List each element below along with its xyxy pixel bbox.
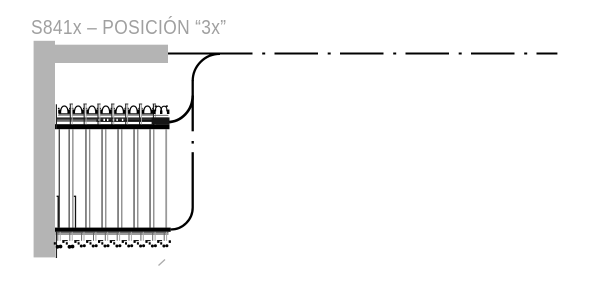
panel 2 body pair <box>86 129 90 227</box>
panel edge divider top 6 <box>139 104 142 125</box>
bottom guide bar 2 <box>74 240 79 242</box>
bottom guide bar 6 <box>122 240 127 242</box>
top hanger row line lower left <box>56 120 96 122</box>
panel edge divider top 2 <box>83 104 86 125</box>
panel edge divider top 3 <box>97 104 100 125</box>
bottom rail line 2 <box>56 233 169 235</box>
bottom guide swivel 8 <box>137 232 148 248</box>
panel edge divider top 1 <box>70 104 73 125</box>
panel edge divider top 5 <box>125 104 128 125</box>
roller carrier 3 <box>86 106 99 115</box>
panel 3 body pair <box>102 129 106 227</box>
bottom rail band <box>55 228 171 232</box>
bottom rail line 1 <box>56 232 169 234</box>
roller carrier 1 <box>58 106 71 115</box>
bottom guide swivel 5 <box>101 232 112 248</box>
track top line dash-dot <box>253 53 558 55</box>
panel 4 body pair <box>118 129 122 227</box>
roller carrier 2 <box>72 106 85 115</box>
wall vertical band <box>34 41 55 258</box>
bottom guide swivel 2 <box>66 232 77 249</box>
track vertical solid lower <box>192 152 194 207</box>
bottom guide swivel 9 <box>149 232 160 248</box>
roller carrier 7 <box>141 106 154 115</box>
hanger row white specks <box>98 119 124 121</box>
track vertical dot <box>192 141 194 144</box>
bottom guide swivel 6 <box>113 232 124 248</box>
floor channel left upright <box>57 196 59 227</box>
floor channel right upright <box>74 196 76 227</box>
bottom guide swivel 7 <box>125 232 136 248</box>
lead drive carrier (double roller) <box>152 105 170 124</box>
bottom guide bar 3 <box>86 240 91 242</box>
track curve to stack top band <box>168 96 193 123</box>
dimension tick <box>159 260 166 266</box>
track curve bottom <box>171 208 193 230</box>
top hanger row line lower right <box>96 120 168 122</box>
panel 6 body pair <box>150 129 154 227</box>
bottom guide swivel 4 <box>90 232 101 248</box>
left jamb profile top <box>55 104 57 129</box>
bottom guide bar 8 <box>145 240 150 242</box>
panel body right single <box>165 129 167 227</box>
bottom guide bar 4 <box>98 240 103 242</box>
top hanger rail band <box>55 124 170 129</box>
bottom guide bar 1 <box>62 240 67 242</box>
bottom guide swivel 10 <box>160 232 171 248</box>
panel 5 body pair <box>134 129 138 227</box>
roller carrier 5 <box>113 106 126 115</box>
bottom guide bar 7 <box>134 240 139 242</box>
bottom guide bar 9 <box>157 240 162 242</box>
left jamb profile bottom <box>55 232 57 258</box>
panel edge divider top 7 <box>153 104 156 125</box>
roller carrier 6 <box>127 106 140 115</box>
panel body left single <box>58 129 60 227</box>
wall horizontal band <box>55 45 168 63</box>
panel edge divider top 4 <box>111 104 114 125</box>
panel 1 body pair <box>69 129 73 227</box>
bottom guide bar 5 <box>110 240 115 242</box>
top hanger row line upper <box>56 117 168 119</box>
roller carrier 4 <box>99 106 112 115</box>
track curve top <box>193 54 220 81</box>
track vertical solid upper <box>192 80 194 131</box>
bottom guide swivel 1 <box>54 232 65 249</box>
title S841x - POSICION 3x <box>31 17 226 40</box>
track top line solid <box>168 53 253 55</box>
bottom guide swivel 3 <box>78 232 89 248</box>
